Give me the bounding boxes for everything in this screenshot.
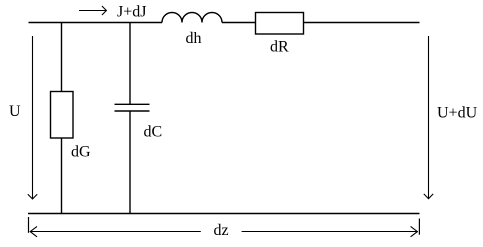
wire dG branch bottom — [61, 138, 63, 214]
resistor dR — [256, 13, 304, 35]
dimension arrow left (dz) — [30, 226, 201, 236]
svg-text:dC: dC — [144, 124, 163, 141]
svg-text:dR: dR — [270, 39, 289, 56]
inductor dh — [162, 13, 222, 23]
wire dC branch top — [129, 23, 131, 105]
svg-text:dG: dG — [71, 144, 91, 161]
dimension tick right — [418, 219, 420, 235]
svg-text:dh: dh — [186, 30, 202, 47]
wire bottom — [28, 213, 420, 215]
voltage arrow U — [28, 36, 37, 199]
voltage arrow U+dU — [424, 36, 433, 199]
svg-text:dz: dz — [214, 222, 229, 239]
svg-text:U: U — [9, 103, 21, 120]
resistor dG — [51, 92, 74, 139]
wire top-left segment — [29, 22, 163, 24]
dimension arrow right (dz) — [242, 226, 418, 236]
wire dC branch bottom — [129, 111, 131, 214]
wire top-right segment — [304, 22, 420, 24]
wire dG branch top — [61, 23, 63, 92]
svg-text:U+dU: U+dU — [437, 105, 478, 122]
capacitor dC — [115, 104, 150, 111]
svg-text:J+dJ: J+dJ — [117, 4, 146, 21]
wire inductor-to-resistor — [222, 22, 255, 24]
dimension tick left — [28, 217, 30, 233]
current arrow J+dJ — [79, 6, 106, 15]
